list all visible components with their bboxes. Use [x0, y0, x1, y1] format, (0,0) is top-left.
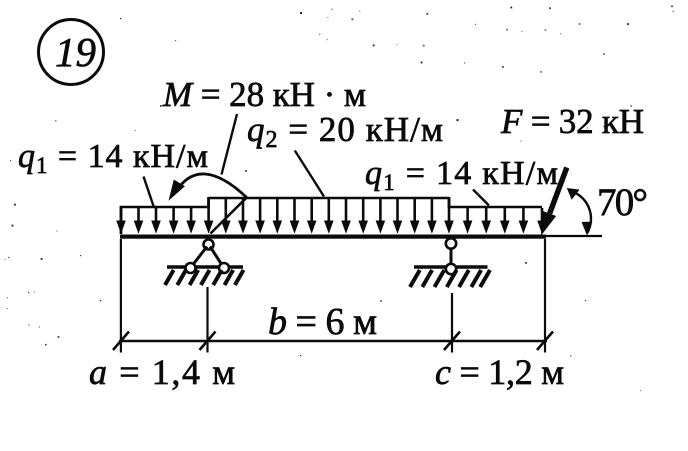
svg-text:M = 28 кН · м: M = 28 кН · м [162, 75, 366, 114]
svg-text:70°: 70° [597, 181, 648, 224]
svg-text:q1 = 14 кН/м: q1 = 14 кН/м [18, 138, 208, 178]
svg-text:c = 1,2 м: c = 1,2 м [435, 352, 564, 392]
q1 right load box top line [449, 206, 542, 209]
extension line left end [120, 239, 122, 353]
left support pin top hinge [204, 240, 214, 250]
q1 left arrows [116, 208, 196, 234]
svg-text:b = 6 м: b = 6 м [268, 301, 377, 343]
moment M straight tail [211, 198, 247, 234]
left support leg left [192, 247, 208, 267]
svg-text:a = 1,4 м: a = 1,4 м [89, 352, 235, 392]
moment M arc [175, 174, 247, 197]
left support ground line [167, 265, 243, 268]
left support leg right [210, 247, 223, 267]
left support hatching [165, 270, 244, 285]
q1 left leader line [144, 177, 155, 208]
svg-text:19: 19 [55, 29, 96, 75]
angle arc arrowhead bottom [582, 222, 593, 236]
beam [120, 235, 546, 239]
force F shaft [550, 168, 567, 214]
right support link [450, 248, 453, 265]
extension line right support [451, 293, 453, 353]
right support hatching [410, 270, 490, 287]
q2 box left edge [207, 197, 210, 208]
extension line left support [206, 287, 208, 353]
extension line right end [544, 239, 546, 353]
force F arrowhead [541, 211, 556, 236]
svg-text:q1 = 14 кН/м: q1 = 14 кН/м [365, 155, 558, 195]
dim tick right end [537, 332, 553, 351]
q1 right arrows [463, 208, 547, 234]
q2 load box top line [209, 197, 449, 200]
q1 left load box top line [120, 206, 209, 209]
right support roller top hinge [446, 238, 456, 248]
q2 leader line [295, 151, 324, 197]
q2 box right edge [448, 197, 451, 208]
dim tick left support [200, 332, 216, 351]
q1 left box left edge [120, 206, 123, 234]
moment M arrowhead [169, 180, 185, 201]
moment M leader line [222, 114, 238, 175]
left support hinge left [186, 263, 196, 273]
q2 arrows [204, 199, 454, 234]
svg-text:q2 = 20 кН/м: q2 = 20 кН/м [247, 110, 443, 153]
left support hinge right [219, 263, 229, 273]
q1 right leader line [473, 190, 489, 206]
angle arc arrowhead top [567, 188, 580, 200]
right support lower hinge [446, 264, 456, 274]
svg-text:F = 32 кН: F = 32 кН [500, 102, 644, 141]
problem number circle 19 [39, 20, 104, 85]
dim tick left end [113, 332, 129, 351]
angle 70 arc [569, 191, 591, 234]
dim tick right support [444, 332, 460, 351]
horizontal reference line right of beam [546, 235, 602, 237]
dimension line [119, 340, 547, 342]
right support ground line [414, 265, 488, 268]
